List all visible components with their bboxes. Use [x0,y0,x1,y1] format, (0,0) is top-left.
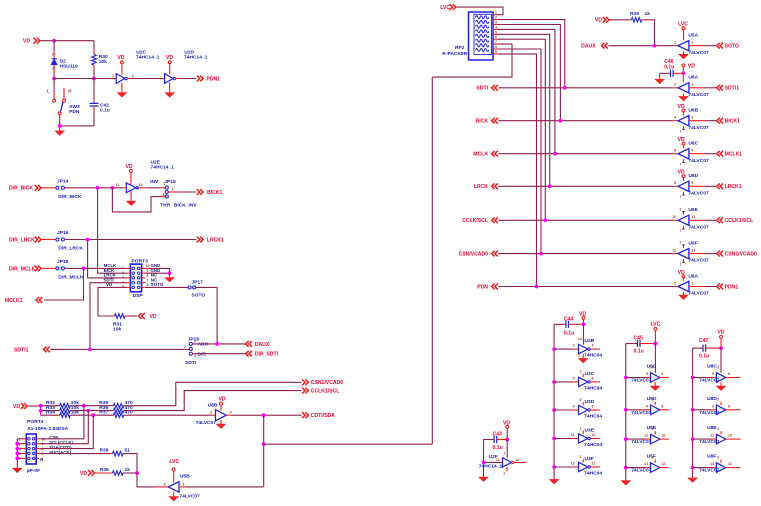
svg-text:2: 2 [504,451,506,455]
wire CCLK/SCL row [498,219,673,221]
svg-text:11: 11 [692,215,696,219]
node A junction [52,39,56,43]
svg-text:BICK_INV: BICK_INV [174,203,198,209]
op-amp U6D 74LVC07 buffer [673,170,709,200]
wire RP2 pin6 to CCLK pullup [498,39,546,220]
svg-text:7: 7 [680,263,682,267]
svg-text:7: 7 [680,195,682,199]
svg-text:12: 12 [728,462,732,466]
svg-text:HSU119: HSU119 [60,64,78,70]
resistor R30 10k [92,54,108,78]
svg-text:LRCK: LRCK [474,184,488,190]
svg-text:8: 8 [495,45,497,49]
svg-text:6: 6 [147,283,149,287]
net label PDN1 [197,76,220,83]
svg-text:74LVC07: 74LVC07 [688,50,709,56]
svg-text:LVC: LVC [440,5,450,11]
svg-text:2: 2 [674,83,676,87]
wire node B row [54,78,110,80]
svg-text:74LVC07: 74LVC07 [631,378,652,384]
op-amp U6A 74LVC07 buffer [673,63,709,101]
svg-text:5: 5 [692,149,694,153]
svg-text:DIR_LRCK: DIR_LRCK [9,237,35,243]
jumper JP14 [42,178,82,200]
svg-text:JP17: JP17 [191,279,203,285]
wire node A to R30 top [54,41,94,55]
connector PORT3 DSP [104,259,164,300]
wire CSN riser [40,406,84,439]
resistor R34 10k [46,409,79,417]
jumper JP16 [42,230,84,252]
svg-text:R-PACK8R: R-PACK8R [442,51,467,57]
svg-text:DIR_SDTI: DIR_SDTI [255,352,279,358]
svg-text:U8E: U8E [707,425,717,431]
svg-text:1: 1 [692,281,694,285]
wire node down to U5B out [137,473,156,487]
wire RP2 pin8 to CSN pullup [498,49,542,254]
svg-text:1: 1 [19,438,21,442]
wire CCLK1 route [124,391,302,411]
svg-text:CDTI/SDA: CDTI/SDA [311,413,335,419]
svg-text:U5A: U5A [688,33,698,39]
jumper JP17 SOTO [188,279,205,298]
svg-text:VD: VD [595,18,602,24]
svg-text:9: 9 [147,269,149,273]
svg-text:10: 10 [592,433,596,437]
op-amp U2C 74HC14 inverter [110,50,159,98]
svg-text:1: 1 [692,83,694,87]
svg-text:U5C: U5C [647,364,657,370]
op-amp U6F 74LVC07 buffer [672,240,709,266]
svg-text:SOTO: SOTO [151,282,164,287]
svg-text:13: 13 [710,462,714,466]
ground at U5 rail [620,480,631,485]
node LRCK pullup junction [548,184,552,188]
wire RP2 pin2 to SDTI pullup [498,20,565,88]
svg-text:H: H [68,89,71,94]
svg-text:74LVC07: 74LVC07 [688,92,709,98]
svg-text:4: 4 [164,482,166,486]
svg-text:3: 3 [122,276,124,280]
svg-text:2: 2 [580,426,582,430]
wire CDTI riser [40,415,93,448]
svg-text:U8A: U8A [688,273,698,279]
svg-text:ADC: ADC [198,342,209,348]
wire VD drop to U3B [578,319,584,344]
svg-text:PDN1: PDN1 [725,284,739,290]
net label CDTI/SDA [302,412,335,419]
node U2F input junction [482,461,486,465]
svg-text:U3E: U3E [585,428,595,434]
svg-text:INV: INV [150,179,159,185]
svg-text:6: 6 [728,372,730,376]
node CSN junction [82,404,86,408]
node U3C input junction [552,380,556,384]
node CCLK junction [86,409,90,413]
svg-text:R39: R39 [100,467,109,473]
svg-text:5: 5 [495,30,497,34]
power label VD at C44 [579,311,586,319]
svg-text:U8F: U8F [707,454,716,460]
resistor R39 1k [95,467,130,475]
svg-text:U8B: U8B [208,403,218,409]
svg-text:U5B: U5B [180,473,190,479]
svg-text:0.1u: 0.1u [493,445,503,451]
svg-text:CSN1/VCAD0: CSN1/VCAD0 [311,380,343,386]
node U5C input junction [624,376,628,380]
svg-text:PORT4: PORT4 [27,419,44,425]
svg-text:74LVC07: 74LVC07 [699,468,720,474]
node U5F input junction [624,466,628,470]
node C44 junction [582,322,586,326]
power label LVC at C45 [650,321,660,330]
svg-text:74LVC07: 74LVC07 [688,224,709,230]
switch SW3 PDN [47,79,80,126]
svg-text:3: 3 [182,482,184,486]
net label SDTI1 [14,347,50,354]
svg-text:VD: VD [117,55,124,61]
net label CCLK1/SCL [717,217,753,224]
svg-text:THR: THR [160,203,171,209]
svg-text:2: 2 [580,398,582,402]
svg-text:9: 9 [692,181,694,185]
resistor R29 1k [628,11,650,22]
svg-text:SOTO: SOTO [191,293,205,299]
svg-text:DIR_MCLK: DIR_MCLK [58,275,84,281]
wire JP17 down to JP18 [196,287,217,344]
svg-text:U2C: U2C [136,50,146,56]
op-amp U5C 74LVC07 buffer [626,364,669,391]
op-amp U6C 74LVC07 buffer [673,137,709,167]
node U8F input junction [691,466,695,470]
wire PORT3 SDTI drop [90,283,127,350]
node R38/R39 junction [135,471,139,475]
svg-text:JP16: JP16 [57,230,69,236]
svg-text:JP14: JP14 [57,178,69,184]
svg-text:DIR_LRCK: DIR_LRCK [58,246,83,252]
svg-text:8: 8 [728,404,730,408]
jumper JP19 [42,259,85,281]
svg-text:8: 8 [147,274,149,278]
svg-text:DIR: DIR [198,351,207,357]
svg-text:LRCK1: LRCK1 [207,237,224,243]
svg-text:74HC14_1: 74HC14_1 [136,55,160,61]
svg-text:R29: R29 [630,11,639,17]
power label VD at R32 [13,403,27,410]
ground at PORT3 [164,273,175,282]
op-amp U8E 74LVC07 buffer [693,425,741,445]
wire BICK row [498,120,673,122]
svg-text:R37: R37 [99,409,108,415]
svg-text:BICK1: BICK1 [207,190,222,196]
svg-text:7: 7 [680,163,682,167]
net label LRCK1 [197,237,224,244]
wire U5 input rail [625,344,627,481]
svg-text:U6E: U6E [688,207,698,213]
net label CSN1/VCAD0 [302,379,343,386]
node BICK junctions [96,186,115,190]
svg-text:2: 2 [122,271,124,275]
net label SDTI1 [717,85,739,92]
power label VD at R39 [80,470,94,477]
svg-text:1: 1 [163,182,165,186]
wire SDTI row [498,87,673,89]
wire U6B input [706,120,717,122]
svg-text:7: 7 [495,40,497,44]
op-amp U2E 74HC14 inverter [116,159,174,206]
wire U6E input [706,219,717,221]
wire LRCK row [65,239,197,241]
resistor pack RP2 R-PACK8R [442,11,497,60]
svg-text:8: 8 [674,181,676,185]
svg-text:0.1u: 0.1u [100,108,110,114]
net label DIR_BICK [9,185,41,192]
capacitor C44 0.1u [554,317,583,337]
svg-text:DSP: DSP [133,293,144,299]
node CDTI out junction [262,413,266,417]
wire RP2 pin7 to CDTI pullup [432,44,512,77]
net label DAUX at U5A [581,43,608,50]
svg-text:SDTI: SDTI [185,360,197,366]
power label VD at R29 [595,17,609,24]
svg-text:5: 5 [573,377,575,381]
svg-text:CSN1/VCAD0: CSN1/VCAD0 [725,252,757,258]
power label VD at C47 [717,329,724,338]
node SDTI junction [88,348,92,352]
node CDTI mid junction [262,442,266,446]
resistor R32 10k [46,400,79,408]
svg-text:5: 5 [646,372,648,376]
wire U2F power drop [504,440,508,458]
svg-text:14: 14 [578,337,582,341]
svg-text:2: 2 [652,398,654,402]
svg-text:74HC04: 74HC04 [584,471,602,477]
svg-text:11: 11 [571,433,575,437]
svg-text:U2D: U2D [184,50,194,56]
node C45 junction [654,342,658,346]
wire R29 to DAUX node [645,20,655,46]
wire PORT3 VD pin to R31 [98,287,127,316]
svg-text:U3D: U3D [585,399,595,405]
svg-text:VD: VD [688,63,695,69]
resistor R36 470 [99,405,133,413]
svg-text:8: 8 [662,404,664,408]
op-amp U3F 74HC04 inverter [554,455,602,477]
wire LVC to RP2 pin1 [457,7,504,15]
svg-text:0.1u: 0.1u [664,64,674,70]
svg-text:R34: R34 [46,409,55,415]
wire bottom rail [60,125,94,127]
node U3B input junction [552,347,556,351]
svg-text:JP15: JP15 [164,179,176,185]
svg-text:13: 13 [571,462,575,466]
svg-text:74LVC07: 74LVC07 [631,468,652,474]
svg-text:U8D: U8D [707,396,717,402]
svg-text:10: 10 [728,434,732,438]
svg-text:11: 11 [644,434,648,438]
svg-text:JP19: JP19 [57,259,69,265]
net label CSN1/VCAD0 [717,251,757,258]
svg-text:3: 3 [692,116,694,120]
svg-text:4: 4 [495,25,497,29]
wire VD to resistor rows [28,406,60,416]
svg-text:VD: VD [717,329,724,335]
svg-text:10k: 10k [99,59,107,65]
svg-text:U6A: U6A [688,75,698,81]
wire BICK_INV bypass [112,188,165,212]
svg-text:3: 3 [210,411,212,415]
node U8E input junction [691,437,695,441]
svg-text:7: 7 [578,354,580,358]
op-amp U6E 74LVC07 buffer [672,207,709,233]
power label LVC at RP2 [440,4,456,11]
wire U5B in from CDTI node [186,444,264,487]
svg-text:PDN: PDN [69,109,80,115]
node R32 junction [39,404,43,408]
power label VD at R31 [129,313,157,320]
wire CSN1 route [124,382,302,405]
wire PORT4 left pins to ground [15,439,21,468]
node C43 junction [505,438,509,442]
ground at PORT4 [12,468,23,473]
svg-text:10: 10 [662,434,666,438]
op-amp U3E 74HC04 inverter [554,426,602,448]
op-amp U2D 74HC14 inverter [159,50,208,98]
svg-text:U6D: U6D [688,173,698,179]
svg-text:1: 1 [122,266,124,270]
svg-text:MCLK1: MCLK1 [5,298,23,304]
resistor R33 10k [46,405,79,413]
svg-text:7: 7 [680,229,682,233]
wire U6D input [706,185,717,187]
wire BICK drop to PORT3 [98,188,127,273]
op-amp U8A 74LVC07 buffer [673,270,709,300]
node BICK pullup junction [559,119,563,123]
svg-text:U6C: U6C [688,141,698,147]
node B junctions [52,77,96,81]
svg-text:1: 1 [112,74,114,78]
svg-text:DIR_MCLK: DIR_MCLK [9,266,36,272]
net label DAUX [246,341,270,348]
wire CSN/VCAD0 row [498,253,673,255]
wire JP14 to U2E [65,187,123,189]
node DAUX junction [215,342,219,346]
wire U2C to U2D [131,78,159,80]
svg-text:1k: 1k [645,11,651,17]
op-amp U5E 74LVC07 buffer [626,425,669,445]
svg-text:3: 3 [573,344,575,348]
svg-text:1: 1 [692,41,694,45]
svg-text:8: 8 [592,405,594,409]
svg-text:13: 13 [644,462,648,466]
wire DAUX to U5A [608,45,673,47]
svg-text:U2F: U2F [489,454,498,460]
svg-text:R38: R38 [100,448,109,454]
svg-text:DAUX: DAUX [581,44,596,50]
capacitor C45 0.1u [626,336,656,355]
svg-text:74LVC07: 74LVC07 [631,439,652,445]
svg-text:2: 2 [717,455,719,459]
resistor R37 470 [99,409,133,417]
svg-text:CCLK1/SCL: CCLK1/SCL [725,218,754,224]
resistor R38 51 [100,448,131,456]
wire JP18 pin3 to DIR_SDTI [192,353,245,355]
jumper JP18 ADC/DIR [184,336,208,366]
op-amp U8C 74LVC07 buffer [693,364,741,391]
net label DIR_SDTI [246,351,279,358]
op-amp U5F 74LVC07 buffer [626,454,669,474]
op-amp U3B 74HC04 inverter [554,338,602,363]
ground below switch [54,126,65,136]
wire PDN row [498,286,673,288]
svg-text:9: 9 [712,404,714,408]
svg-text:11: 11 [710,434,714,438]
svg-text:U8C: U8C [707,364,717,370]
wire U5A input [706,45,717,47]
op-amp U8F 74LVC07 buffer [693,454,741,474]
svg-text:5: 5 [712,372,714,376]
wire RP2 pin3 to BICK pullup [498,25,561,121]
node CDTI junction [91,413,95,417]
svg-text:2: 2 [717,427,719,431]
svg-text:2: 2 [674,41,676,45]
svg-text:U3B: U3B [585,338,595,344]
net label BICK1 [717,118,740,125]
node GND junction [168,271,172,275]
net label MCLK1 [717,151,743,158]
svg-text:10: 10 [139,183,143,187]
op-amp U6B 74LVC07 buffer [673,104,709,134]
net label DIR_LRCK [9,237,41,244]
node MCLK junction [82,267,86,271]
svg-text:3: 3 [194,354,196,358]
svg-text:2: 2 [132,74,134,78]
svg-text:3: 3 [495,21,497,25]
svg-text:2: 2 [172,188,174,192]
ground at U8 rail [687,478,698,483]
node LRCK junction [86,238,90,242]
wire U2E to JP15 [146,187,165,189]
op-amp U2F 74HC14 inverter [479,454,527,475]
resistor R35 470 [99,400,133,408]
net label PDN1 [717,284,739,291]
svg-text:74LVC07: 74LVC07 [688,125,709,131]
svg-text:SOTO: SOTO [725,44,739,50]
svg-text:2: 2 [680,207,682,211]
svg-text:D2: D2 [60,58,67,64]
net label MCLK [473,151,498,158]
node CCLK/SCL pullup junction [543,218,547,222]
wire U3 input rail [553,324,555,479]
svg-text:4: 4 [592,344,594,348]
net label LRCK1 [717,183,742,190]
svg-text:9: 9 [646,404,648,408]
svg-text:0.1u: 0.1u [564,330,574,336]
svg-text:10: 10 [146,264,150,268]
svg-text:µP-I/F: µP-I/F [27,468,40,474]
net label PDN [477,284,498,291]
svg-text:U3C: U3C [585,371,595,377]
connector PORT4 uP-I/F [19,419,74,474]
svg-text:DAUX: DAUX [255,342,270,348]
svg-text:74HC04: 74HC04 [584,385,602,391]
svg-text:74HC14_1: 74HC14_1 [151,164,175,170]
wire CDTI pullup route [264,77,433,444]
net label CSN/VCAD0 [459,251,498,258]
svg-text:2: 2 [652,455,654,459]
resistor R31 10k [112,314,130,333]
svg-text:12: 12 [672,248,676,252]
